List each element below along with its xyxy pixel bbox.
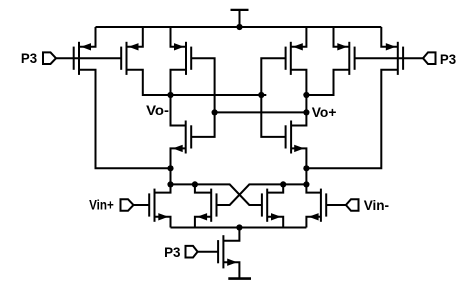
junction Vo+ link right	[303, 109, 309, 115]
nmos M9 tail	[218, 235, 223, 268]
port P3 right	[423, 52, 436, 64]
wire M9 drain to tail node	[223, 228, 239, 241]
wire Q4 source to tail line	[306, 217, 321, 228]
nmos Q4	[321, 189, 326, 222]
port Vin+	[121, 199, 134, 211]
pmos T5	[349, 42, 354, 75]
svg-text:Vo-: Vo-	[146, 102, 169, 118]
junction Vo- T4 M8 gates	[258, 92, 264, 98]
wire M7 source down to node A and Q1 drain	[155, 148, 186, 192]
pmos T3	[186, 42, 191, 75]
wire P3 left gate line to T1,T2 gates	[56, 57, 121, 59]
arrow T1 source	[81, 43, 91, 50]
nmos M8	[286, 121, 292, 154]
svg-text:P3: P3	[21, 50, 37, 66]
wire T2 source from rail	[127, 27, 143, 47]
svg-text:P3: P3	[440, 51, 456, 67]
junction node B lower	[303, 181, 309, 187]
wire P3 bottom lead to M9 gate	[198, 251, 219, 253]
arrow T3 source	[174, 43, 184, 50]
arrow M7 source	[173, 145, 183, 152]
wire Vo+ link line	[215, 111, 307, 113]
arrow T5 source	[337, 43, 347, 50]
wire Vo+ rail to T5 drain	[306, 70, 349, 95]
svg-text:Vin+: Vin+	[89, 196, 114, 212]
junction node B upper	[303, 165, 309, 171]
arrow Q2 source	[197, 213, 207, 220]
svg-text:Vo+: Vo+	[312, 104, 337, 120]
wire M7 drain up to Vo-	[171, 95, 186, 126]
port Vin-	[346, 199, 359, 211]
arrow M8 source	[294, 145, 304, 152]
junction Q2 drain	[192, 181, 198, 187]
wire T4 source from rail	[291, 27, 307, 47]
wire T3 gate / M7 gate column	[191, 58, 214, 137]
wire Vin- lead to Q4 gate	[326, 204, 346, 206]
svg-text:P3: P3	[164, 244, 181, 260]
junction node A upper	[167, 165, 173, 171]
wire T6 source from rail	[381, 27, 398, 47]
wire node A cross-couple line to Q3 gate	[171, 184, 262, 205]
wire Q2 drain	[195, 184, 211, 192]
junction Vo+ link left	[212, 109, 218, 115]
wire T3 drain to Vo- node	[171, 70, 187, 95]
junction VDD rail	[236, 24, 242, 30]
arrow M9 source	[227, 259, 237, 266]
arrow T6 source	[386, 43, 396, 50]
wire Q3 drain	[267, 184, 283, 192]
svg-text:Vin-: Vin-	[364, 197, 390, 213]
wire T3 source from rail	[171, 27, 187, 47]
arrow T4 source	[293, 43, 303, 50]
arrow Q4 source	[309, 213, 319, 220]
port P3 left	[43, 52, 56, 64]
wire T5 source from rail	[334, 27, 350, 47]
wire top VDD rail	[96, 26, 382, 28]
wire T2 drain to Vo- rail	[127, 70, 267, 95]
junction Vo- M7 drain	[167, 92, 173, 98]
wire node B cross-couple line to Q2 gate	[217, 184, 307, 205]
wire T1 drain down to node A line	[79, 70, 171, 169]
port P3 bottom	[186, 246, 198, 258]
junction tail node	[236, 224, 242, 230]
nmos Q3	[262, 189, 267, 222]
wire Q1 source to tail line	[155, 217, 171, 228]
pmos T4	[286, 42, 291, 75]
pmos T2	[121, 42, 126, 75]
junction Q3 drain	[280, 181, 286, 187]
wire tail line	[171, 227, 307, 229]
wire T1 source from rail	[80, 27, 96, 47]
arrow T2 source	[129, 43, 139, 50]
nmos Q2	[211, 189, 216, 222]
junction node A lower	[167, 181, 173, 187]
arrow Q1 source	[158, 213, 168, 220]
nmos Q1	[149, 189, 154, 222]
wire Vin+ lead to Q1 gate	[134, 204, 150, 206]
wire T4 drain down to M8 drain	[291, 70, 307, 126]
pmos T1	[74, 42, 79, 75]
ground	[228, 277, 251, 280]
wire Q3 source to tail line	[267, 217, 283, 228]
power VDD T-symbol	[231, 10, 249, 27]
wire T4 gate / M8 gate column	[261, 58, 285, 137]
wire T6 drain down to node B line	[306, 70, 397, 169]
wire Q2 source to tail line	[195, 217, 211, 228]
nmos M7	[186, 121, 192, 154]
junction Vo+ rail right	[303, 92, 309, 98]
wire M8 source down to node B and Q4 drain	[291, 148, 321, 192]
arrow Q3 source	[271, 213, 281, 220]
wire M9 source to ground	[223, 262, 239, 278]
wire P3 right gate line to T5,T6 gates	[355, 57, 423, 59]
pmos T6	[398, 42, 403, 75]
